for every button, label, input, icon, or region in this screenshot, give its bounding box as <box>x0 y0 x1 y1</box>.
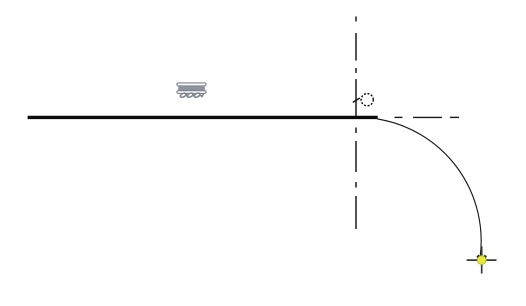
wire: thick model line (wall segment) <box>28 116 378 119</box>
cursor icon: wave curls <box>180 92 204 98</box>
cursor icon: top capsule bar <box>177 83 206 86</box>
cursor icon: middle solid bar <box>178 86 205 90</box>
drag handle ring ticks <box>477 256 479 258</box>
cursor icon: bottom capsule bar <box>177 91 206 94</box>
drag handle crosshair <box>467 246 497 273</box>
drag handle yellow dot <box>477 256 486 265</box>
tangent snap: dotted circle <box>361 94 373 106</box>
arc: fillet curve from wall end to drag handle <box>377 119 481 258</box>
horizontal reference plane (dash-dot centerline) at y=117.4 <box>395 116 460 118</box>
vertical reference plane (dash-dot centerline) at x=356 <box>355 17 357 230</box>
snap tick mark crossing reference plane <box>353 98 360 102</box>
